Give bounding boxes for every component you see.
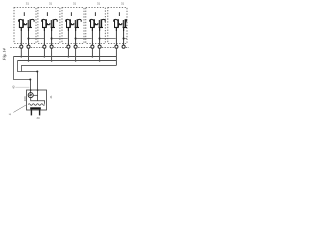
switching unit cell 4 dashed box (86, 8, 106, 44)
terminal circle cell 5 left (115, 45, 118, 48)
transistor Q3b (right FET) (73, 19, 79, 28)
dashed tap line segments (continuation) (10, 47, 19, 49)
junction dot cell 2 left on bus 1 (44, 56, 46, 58)
wire link rightward from Q5b source to next cell (124, 38, 127, 40)
junction dot on right lead at link level (51, 37, 53, 39)
switching unit cell 1 dashed box (14, 8, 36, 44)
wire cell 1 right terminal to bus 2 (28, 48, 30, 60)
terminal circle cell 5 right (122, 45, 125, 48)
junction dot on right lead at link level (123, 37, 125, 39)
junction dot cell 1 left on bus 1 (20, 56, 22, 58)
wire link rightward from Q3b source to next cell (76, 38, 92, 40)
wire cell 3 left source lead (67, 28, 69, 45)
transistor Q1a (left FET) (19, 19, 25, 28)
svg-text:31: 31 (121, 1, 125, 5)
junction dot cell 2 right on bus 2 (51, 60, 53, 62)
node bridge between Q3a and Q3b (70, 24, 73, 25)
wire cell 3 left terminal to bus 1 (67, 48, 69, 56)
wire cell 3 right terminal to bus 2 (75, 48, 77, 60)
wire meter right side link (33, 94, 37, 96)
meter / source symbol M1 (28, 93, 33, 98)
wire link rightward from Q2b source to next cell (52, 38, 68, 40)
cell 2 inner label 1 (47, 12, 48, 16)
wire link rightward from Q4b source to next cell (100, 38, 116, 40)
svg-text:40: 40 (36, 116, 40, 120)
wire cell 1 left terminal to bus 1 (20, 48, 22, 56)
switching unit cell 2 dashed box (38, 8, 60, 44)
junction dot upper route (36, 71, 38, 73)
cell 5 inner label 1 (119, 12, 120, 16)
wire down to measuring box right terminal (37, 72, 39, 101)
wire link rightward from Q1b source to next cell (29, 38, 45, 40)
junction dot lower route (29, 79, 31, 81)
junction dot cell 4 right on bus 2 (99, 60, 101, 62)
lead leg left (31, 109, 32, 115)
terminal circle cell 2 left (43, 45, 46, 48)
svg-text:41: 41 (49, 95, 53, 99)
junction dot at box top left terminal (30, 89, 32, 91)
bus line 2 (18, 60, 117, 62)
wire cell 2 left terminal to bus 1 (43, 48, 45, 56)
wire cell 5 left source lead (115, 28, 117, 45)
wire cell 1 right source lead (28, 28, 30, 45)
svg-text:31: 31 (97, 1, 101, 5)
node bridge between Q5a and Q5b (118, 24, 121, 25)
svg-text:Fig. 14: Fig. 14 (2, 48, 7, 60)
terminal circle cell 3 left (67, 45, 70, 48)
node bridge between Q2a and Q2b (46, 24, 49, 25)
wire bus2 left riser down to upper route (18, 61, 38, 72)
wire cell 4 left source lead (91, 28, 93, 45)
wire cell 2 right terminal to bus 2 (51, 48, 53, 60)
svg-text:31: 31 (49, 1, 53, 5)
wire cell 4 right terminal to bus 2 (99, 48, 101, 60)
transistor Q5b (right FET) (121, 19, 127, 28)
junction dot cell 3 left on bus 1 (68, 56, 70, 58)
wire cell 5 right source lead (123, 28, 125, 45)
terminal circle cell 3 right (74, 45, 77, 48)
transistor Q4a (left FET) (90, 19, 96, 28)
bus line 1 (14, 56, 117, 58)
bus line 3 (21, 64, 116, 66)
transistor Q4b (right FET) (97, 19, 103, 28)
wire bus1 left riser down to lower route (14, 57, 31, 80)
transistor Q3a (left FET) (66, 19, 72, 28)
junction dot cell 4 left on bus 1 (92, 56, 94, 58)
wire cell 4 right source lead (99, 28, 101, 45)
junction dot on right lead at link level (27, 37, 29, 39)
svg-text:31: 31 (26, 1, 30, 5)
resistor R1 (wavy) (28, 104, 45, 106)
svg-text:31: 31 (73, 1, 77, 5)
terminal circle cell 4 right (98, 45, 101, 48)
transistor Q2a (left FET) (42, 19, 48, 28)
wire down to measuring box left terminal (30, 80, 32, 93)
junction dot cell 1 right on bus 2 (28, 60, 30, 62)
wire cell 5 left terminal down through bus1 and bus2 to bus 3 (115, 48, 117, 65)
cell 3 inner label 1 (71, 12, 72, 16)
junction dot on right lead at link level (99, 37, 101, 39)
junction dot cell 3 right on bus 2 (75, 60, 77, 62)
transistor Q5a (left FET) (114, 19, 120, 28)
measuring unit box 4 (27, 90, 47, 110)
battery electrode bar (30, 107, 41, 109)
svg-text:400: 400 (23, 96, 27, 101)
wire meter bottom to resistor right end (31, 98, 45, 104)
transistor Q1b (right FET) (26, 19, 32, 28)
terminal circle cell 4 left (91, 45, 94, 48)
leader line to numeral 4 (13, 105, 26, 113)
lead leg right (39, 109, 40, 115)
terminal circle cell 1 right (27, 45, 30, 48)
wire cell 2 left source lead (43, 28, 45, 45)
switching unit cell 3 dashed box (62, 8, 84, 44)
junction dot at box top right terminal (37, 89, 39, 91)
wire bus3 left riser joining upper route (20, 65, 22, 71)
junction dot on right lead at link level (75, 37, 77, 39)
terminal circle cell 2 right (50, 45, 53, 48)
switching unit cell 5 dashed box (108, 8, 127, 44)
wire cell 2 right source lead (51, 28, 53, 45)
node bridge between Q1a and Q1b (23, 24, 26, 25)
leader line numeral 40 (15, 86, 29, 88)
terminal circle cell 1 left (20, 45, 23, 48)
transistor Q2b (right FET) (49, 19, 55, 28)
node bridge between Q4a and Q4b (94, 24, 97, 25)
svg-text:40: 40 (12, 85, 16, 89)
cell 1 inner label 1 (24, 12, 25, 16)
cell 4 inner label 1 (95, 12, 96, 16)
wire cell 4 left terminal to bus 1 (91, 48, 93, 56)
wire cell 1 left source lead (20, 28, 22, 45)
svg-text:4: 4 (8, 113, 12, 115)
wire cell 3 right source lead (75, 28, 77, 45)
